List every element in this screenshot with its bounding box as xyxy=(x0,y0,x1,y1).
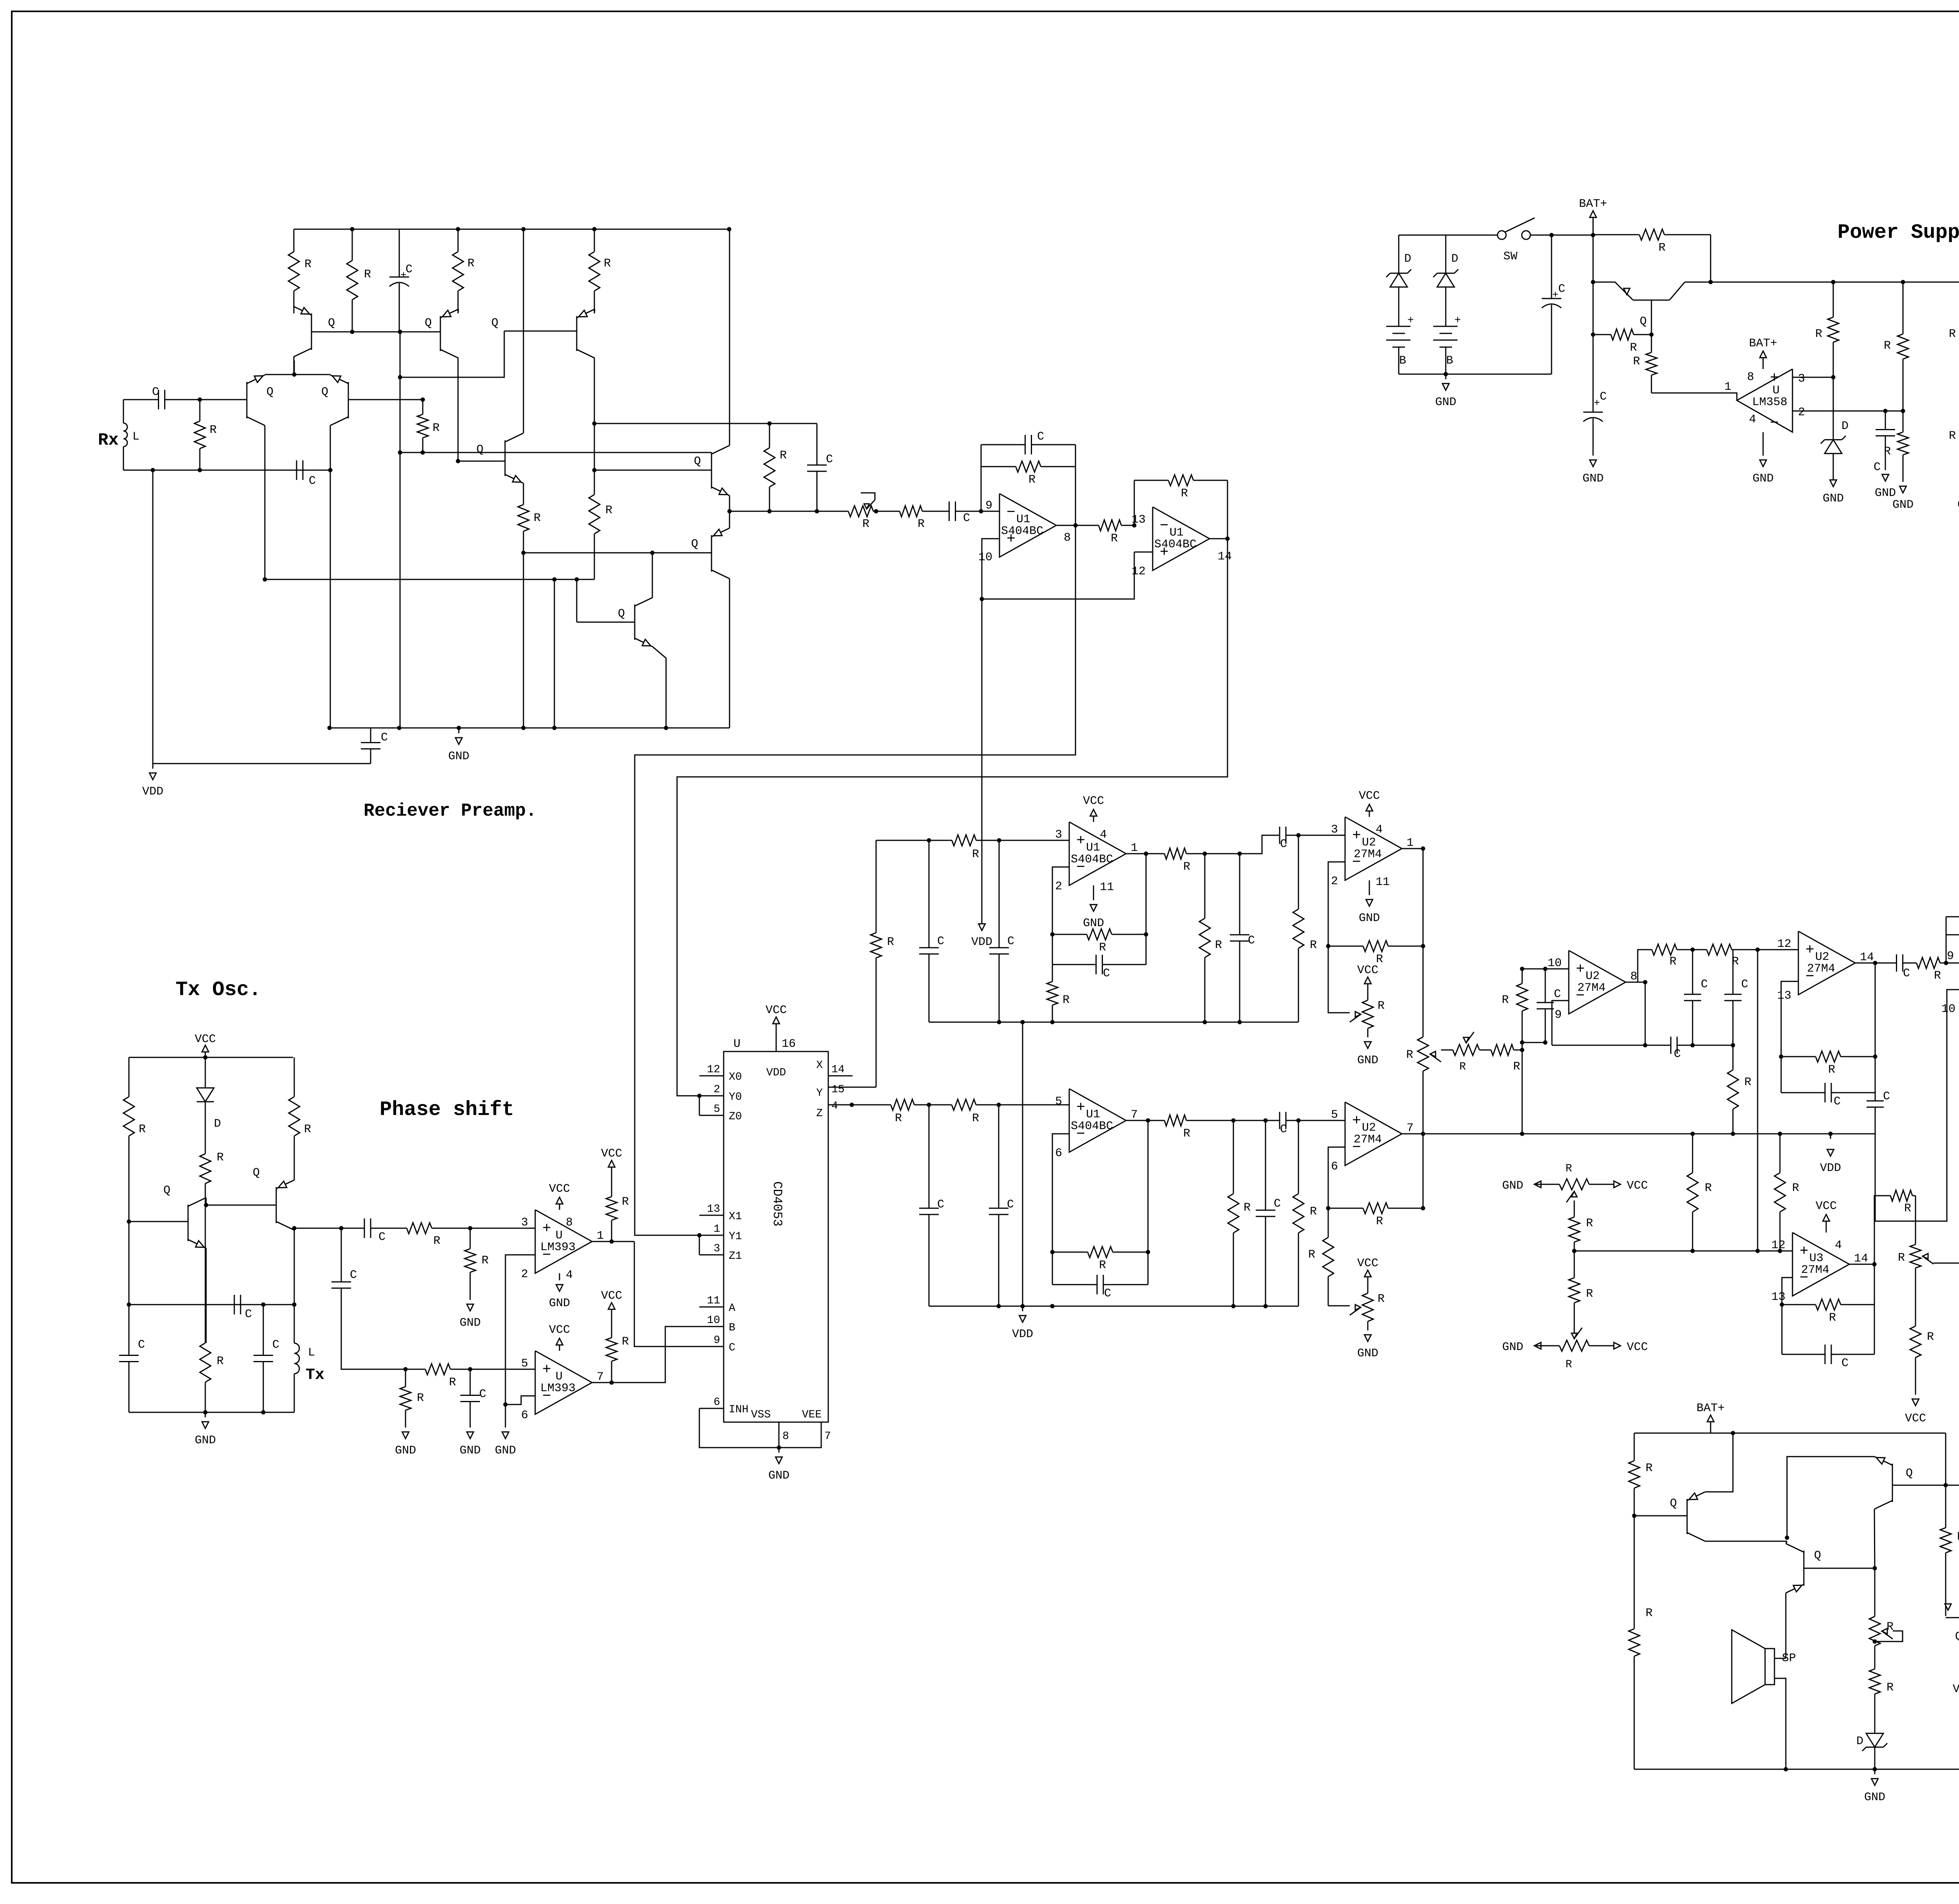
svg-text:GND: GND xyxy=(460,1444,481,1457)
svg-text:9: 9 xyxy=(985,499,992,512)
svg-text:2: 2 xyxy=(1798,406,1805,419)
svg-text:6: 6 xyxy=(1331,1160,1338,1173)
svg-text:C: C xyxy=(1037,430,1044,443)
resistor R fb xyxy=(1328,946,1363,947)
svg-text:GND: GND xyxy=(1357,1347,1378,1360)
resistor R xyxy=(1945,1485,1946,1528)
svg-text:Q: Q xyxy=(266,386,273,399)
svg-text:GND: GND xyxy=(460,1316,481,1330)
wire Q8 emitter xyxy=(729,496,730,511)
svg-text:VCC: VCC xyxy=(1357,964,1378,977)
resistor R xyxy=(876,840,877,933)
power BAT+ xyxy=(1763,357,1764,369)
svg-text:U1: U1 xyxy=(1086,841,1100,854)
wire pin10 xyxy=(982,539,999,599)
svg-text:Y0: Y0 xyxy=(729,1091,742,1103)
resistor R xyxy=(1574,1208,1575,1217)
wire mid rail xyxy=(129,1304,294,1305)
junction xyxy=(1021,1020,1025,1024)
capacitor C xyxy=(929,840,930,948)
svg-text:2: 2 xyxy=(1055,880,1062,893)
wire spk bottom xyxy=(1774,1678,1786,1769)
wire U1b fb right xyxy=(1227,480,1228,539)
svg-text:4: 4 xyxy=(1749,413,1756,426)
svg-text:1: 1 xyxy=(597,1229,604,1243)
svg-text:+: + xyxy=(1800,1243,1809,1260)
svg-text:VDD: VDD xyxy=(766,1067,786,1079)
resistor R xyxy=(352,229,353,261)
resistor R xyxy=(769,424,770,448)
ground xyxy=(779,1448,780,1453)
ground xyxy=(1763,432,1764,456)
svg-text:9: 9 xyxy=(1947,950,1954,963)
svg-text:C: C xyxy=(378,1231,386,1244)
capacitor C polarized xyxy=(1593,415,1594,416)
svg-text:C: C xyxy=(1834,1095,1841,1108)
svg-text:R: R xyxy=(1063,994,1070,1007)
potentiometer R xyxy=(1450,1050,1453,1051)
wire Q2 emitter xyxy=(1785,1593,1787,1658)
wire Q9 collector xyxy=(729,579,730,728)
svg-text:4: 4 xyxy=(831,1100,838,1112)
capacitor C fb xyxy=(1052,964,1096,965)
capacitor C xyxy=(1239,854,1240,935)
wire fb right xyxy=(1146,854,1147,934)
svg-text:Q: Q xyxy=(328,317,335,330)
capacitor C xyxy=(1875,1080,1876,1101)
resistor R xyxy=(1634,1516,1635,1629)
resistor R xyxy=(1874,1652,1876,1669)
wire fb left xyxy=(1946,917,1947,963)
junction xyxy=(552,577,557,582)
wire U1d out xyxy=(1126,853,1164,854)
svg-text:Z0: Z0 xyxy=(729,1111,742,1123)
junction xyxy=(697,1233,702,1238)
junction xyxy=(1779,1055,1783,1059)
svg-text:5: 5 xyxy=(1055,1095,1062,1108)
junction xyxy=(204,1203,208,1207)
svg-text:12: 12 xyxy=(1771,1239,1785,1252)
svg-text:13: 13 xyxy=(1777,989,1791,1003)
resistor R fb xyxy=(1782,1304,1816,1305)
op-amp U1 S404BC xyxy=(999,494,1056,557)
junction xyxy=(1144,852,1148,856)
svg-text:D: D xyxy=(1404,252,1411,266)
wire osc top rail xyxy=(129,1057,293,1058)
junction xyxy=(927,1103,931,1107)
wire Q7 base xyxy=(458,461,505,462)
svg-text:R: R xyxy=(1181,487,1188,500)
wire xyxy=(445,1228,535,1229)
wire Z input row xyxy=(853,1104,876,1106)
wire fb row xyxy=(1552,1045,1655,1046)
capacitor C xyxy=(1265,1120,1266,1210)
svg-text:R: R xyxy=(1828,1063,1835,1077)
svg-text:−: − xyxy=(1007,504,1016,521)
wire xyxy=(1736,949,1798,950)
svg-text:10: 10 xyxy=(978,551,992,564)
svg-text:8: 8 xyxy=(782,1430,789,1442)
svg-text:R: R xyxy=(1459,1061,1466,1073)
svg-text:X0: X0 xyxy=(729,1071,742,1083)
svg-text:14: 14 xyxy=(1218,550,1232,563)
wire bias column lower xyxy=(400,452,401,728)
svg-text:C: C xyxy=(381,731,388,744)
ground xyxy=(1874,1769,1876,1774)
junction xyxy=(997,1020,1001,1024)
svg-text:14: 14 xyxy=(831,1064,845,1076)
ground xyxy=(1830,480,1837,487)
resistor R xyxy=(898,511,900,512)
junction xyxy=(457,726,461,730)
junction xyxy=(1901,280,1905,284)
svg-text:+: + xyxy=(1454,315,1461,327)
resistor R xyxy=(1298,1120,1299,1194)
svg-text:C: C xyxy=(479,1388,486,1401)
svg-text:R: R xyxy=(1815,328,1822,341)
junction xyxy=(1831,280,1836,284)
svg-text:VCC: VCC xyxy=(1359,789,1380,803)
svg-text:R: R xyxy=(1215,939,1222,952)
svg-text:C: C xyxy=(406,263,413,276)
wire up to RR row xyxy=(1638,950,1648,982)
resistor R xyxy=(1522,969,1523,984)
svg-text:Tx Osc.: Tx Osc. xyxy=(176,978,261,1001)
power VCC xyxy=(1369,811,1370,817)
junction xyxy=(650,551,655,555)
svg-text:S404BC: S404BC xyxy=(1071,1120,1113,1133)
svg-text:U1: U1 xyxy=(1016,513,1030,526)
wire bias1 wiper xyxy=(1574,1200,1575,1208)
svg-text:U: U xyxy=(733,1037,741,1051)
svg-text:Q: Q xyxy=(691,538,698,551)
ground xyxy=(402,1432,409,1439)
wire pin10 row xyxy=(1522,968,1569,970)
junction xyxy=(1778,1249,1782,1253)
wire gnd stub xyxy=(554,579,555,728)
wire xyxy=(1445,302,1447,326)
capacitor C xyxy=(998,1105,999,1208)
wire pin12 link xyxy=(982,552,1134,599)
svg-text:7: 7 xyxy=(597,1370,604,1384)
capacitor C upper path xyxy=(341,1228,364,1229)
junction xyxy=(664,726,668,730)
resistor R xyxy=(199,400,201,421)
svg-text:C: C xyxy=(1558,282,1565,296)
wire osc left col xyxy=(129,1175,130,1305)
wire row 2910 xyxy=(1423,1133,1875,1135)
wire Q7 collector xyxy=(523,229,524,433)
wire Q10 emitter xyxy=(653,647,666,728)
junction xyxy=(328,468,333,472)
wire U1a out xyxy=(1056,525,1086,526)
wire xyxy=(1875,1057,1876,1093)
wire osc out down xyxy=(341,1228,342,1269)
junction xyxy=(468,1367,473,1372)
junction xyxy=(1731,1043,1735,1048)
svg-text:D: D xyxy=(214,1117,221,1131)
wire GND rail preamp xyxy=(330,728,730,729)
diode D zener xyxy=(1390,273,1407,287)
resistor R xyxy=(1483,1050,1491,1051)
svg-text:GND: GND xyxy=(768,1469,789,1482)
capacitor C polarized xyxy=(1551,235,1552,290)
wire Z rail xyxy=(929,1306,1298,1307)
svg-text:R: R xyxy=(1378,1292,1385,1306)
svg-text:27M4: 27M4 xyxy=(1354,1133,1382,1146)
capacitor C xyxy=(1545,969,1546,1003)
capacitor C in U2b xyxy=(1267,1120,1280,1121)
resistor R fb xyxy=(1052,934,1087,935)
ground xyxy=(559,1273,560,1280)
junction xyxy=(1520,1048,1524,1052)
svg-text:R: R xyxy=(1244,1201,1251,1214)
resistor R xyxy=(129,1057,130,1097)
junction xyxy=(203,1055,208,1060)
svg-text:R: R xyxy=(1705,1182,1712,1195)
svg-text:3: 3 xyxy=(713,1243,720,1255)
svg-text:VCC: VCC xyxy=(1905,1412,1926,1425)
svg-text:R: R xyxy=(1898,1251,1905,1265)
wire Q3 base xyxy=(1892,1485,1959,1486)
wire fb right xyxy=(1075,445,1076,525)
wire out up xyxy=(1874,1196,1887,1264)
svg-text:VCC: VCC xyxy=(601,1289,622,1303)
wire fb pin2 xyxy=(1328,862,1345,946)
svg-text:GND: GND xyxy=(195,1434,216,1447)
svg-text:C: C xyxy=(826,453,833,466)
wire Q1 base xyxy=(129,1221,188,1222)
junction xyxy=(1543,967,1548,971)
svg-text:R: R xyxy=(887,936,894,949)
junction xyxy=(1444,372,1448,376)
wire LM393b out xyxy=(592,1327,699,1383)
wire xyxy=(1445,347,1447,374)
junction xyxy=(1873,1566,1877,1571)
svg-text:S404BC: S404BC xyxy=(1154,538,1197,551)
svg-text:X: X xyxy=(816,1059,823,1071)
junction xyxy=(1901,409,1905,413)
junction xyxy=(697,1094,702,1098)
capacitor C xyxy=(470,1369,471,1395)
svg-text:R: R xyxy=(1646,1462,1653,1475)
svg-text:R: R xyxy=(1183,860,1190,874)
svg-text:R: R xyxy=(1502,994,1509,1007)
resistor R xyxy=(405,1369,406,1387)
resistor R xyxy=(205,1205,206,1343)
wire pin10 loop xyxy=(1875,963,1876,1080)
junction xyxy=(610,1381,614,1385)
resistor R xyxy=(1833,282,1834,317)
wire VCC rail xyxy=(1685,282,1959,283)
wire U1b out xyxy=(1209,538,1228,539)
junction xyxy=(997,1103,1001,1107)
svg-text:1: 1 xyxy=(1131,842,1138,855)
wire RR row feed xyxy=(1757,950,1758,1251)
svg-text:5: 5 xyxy=(713,1103,720,1115)
svg-text:1: 1 xyxy=(1724,380,1731,394)
junction xyxy=(198,468,202,472)
junction xyxy=(1520,967,1524,971)
wire mixer col xyxy=(1423,946,1424,1015)
svg-text:S404BC: S404BC xyxy=(1001,525,1043,538)
svg-text:+: + xyxy=(1352,1113,1361,1129)
svg-text:C: C xyxy=(152,386,159,399)
svg-text:11: 11 xyxy=(707,1295,720,1307)
svg-text:C: C xyxy=(1274,1197,1281,1211)
svg-text:Q: Q xyxy=(1955,1630,1959,1643)
resistor R fb xyxy=(1781,1056,1816,1057)
junction xyxy=(151,468,155,472)
svg-text:C: C xyxy=(1103,967,1110,980)
wire pin2 ref xyxy=(505,1255,535,1404)
wire xyxy=(1187,1120,1267,1121)
svg-text:C: C xyxy=(1841,1357,1849,1370)
junction xyxy=(456,459,460,463)
svg-text:LM393: LM393 xyxy=(540,1382,576,1395)
power VDD xyxy=(979,924,985,930)
wire fb right xyxy=(1148,1120,1149,1252)
wire LM393a out xyxy=(592,1241,634,1242)
wire Q1 emitter xyxy=(206,1248,207,1343)
svg-text:R: R xyxy=(1376,1215,1383,1228)
svg-text:R: R xyxy=(1957,1530,1959,1544)
junction xyxy=(979,509,983,514)
svg-text:14: 14 xyxy=(1854,1252,1868,1265)
svg-text:+: + xyxy=(400,270,407,281)
wire xyxy=(1398,347,1400,374)
resistor R xyxy=(422,400,424,414)
svg-text:R: R xyxy=(604,257,611,270)
svg-text:12: 12 xyxy=(1132,565,1146,578)
resistor R xyxy=(876,1104,891,1106)
power VDD xyxy=(1830,1134,1831,1139)
capacitor C polarized xyxy=(399,229,400,277)
svg-text:Phase shift: Phase shift xyxy=(380,1098,514,1121)
junction xyxy=(1050,1020,1055,1024)
capacitor C fb xyxy=(1781,1092,1825,1093)
svg-text:2: 2 xyxy=(713,1084,720,1096)
junction xyxy=(1296,1119,1301,1123)
svg-text:2: 2 xyxy=(1331,875,1338,888)
resistor R xyxy=(394,1228,407,1229)
inductor L Tx xyxy=(294,1305,295,1343)
svg-text:LM358: LM358 xyxy=(1752,396,1787,409)
capacitor C xyxy=(1889,963,1897,964)
resistor R xyxy=(1164,853,1164,854)
junction xyxy=(728,509,732,514)
capacitor C xyxy=(999,840,1000,948)
svg-text:7: 7 xyxy=(1407,1122,1414,1135)
capacitor C xyxy=(263,1305,264,1356)
wire emitter feed xyxy=(294,360,295,375)
junction xyxy=(1780,1303,1784,1307)
svg-text:R: R xyxy=(1566,1359,1572,1371)
wire wiper loop xyxy=(1892,1639,1894,1640)
junction xyxy=(610,1240,614,1244)
svg-text:U: U xyxy=(556,1229,563,1242)
capacitor C xyxy=(817,424,818,447)
svg-text:27M4: 27M4 xyxy=(1354,848,1382,861)
wire Q9 base xyxy=(523,552,712,554)
svg-text:R: R xyxy=(1658,241,1666,255)
svg-text:9: 9 xyxy=(1555,1008,1562,1022)
svg-text:VDD: VDD xyxy=(971,936,992,949)
wire Q2 base xyxy=(206,1205,276,1206)
wire batt top xyxy=(1399,235,1498,236)
svg-text:VCC: VCC xyxy=(601,1147,622,1160)
wire fb cap row xyxy=(1052,1252,1053,1285)
capacitor C xyxy=(929,1105,930,1208)
junction xyxy=(404,1367,408,1372)
svg-text:LM393: LM393 xyxy=(540,1241,576,1254)
wire fb cap xyxy=(1782,1305,1783,1354)
resistor R xyxy=(1887,1195,1890,1196)
svg-text:C: C xyxy=(272,1338,279,1352)
resistor R xyxy=(594,229,595,252)
junction xyxy=(456,227,460,232)
junction xyxy=(1944,1483,1948,1488)
junction xyxy=(727,227,731,232)
wire amp top rail xyxy=(1634,1433,1946,1434)
svg-text:Q: Q xyxy=(476,443,483,456)
junction xyxy=(1238,852,1242,856)
svg-text:GND: GND xyxy=(1502,1341,1523,1354)
junction xyxy=(468,1226,473,1231)
svg-text:+: + xyxy=(1552,289,1559,301)
svg-text:VCC: VCC xyxy=(1627,1341,1648,1354)
wire line B xyxy=(677,539,1228,1096)
svg-text:INH: INH xyxy=(729,1404,748,1416)
svg-text:16: 16 xyxy=(782,1037,796,1051)
svg-text:R: R xyxy=(972,1112,979,1125)
junction xyxy=(421,398,425,402)
svg-text:GND: GND xyxy=(1582,472,1604,485)
comparator U LM393 xyxy=(535,1351,592,1414)
junction xyxy=(1326,1206,1331,1211)
junction xyxy=(927,838,931,843)
resistor R xyxy=(470,1228,471,1249)
wire U2a out xyxy=(1402,848,1423,849)
svg-text:C: C xyxy=(729,1342,735,1354)
capacitor C xyxy=(1733,950,1734,994)
wire Q10 base riser xyxy=(576,579,578,622)
wire mixer col low xyxy=(1423,1093,1424,1134)
wire xyxy=(1522,1042,1545,1043)
svg-text:2: 2 xyxy=(521,1268,528,1281)
wire bias column xyxy=(400,331,401,452)
svg-text:4: 4 xyxy=(1376,823,1383,836)
svg-text:Y1: Y1 xyxy=(729,1231,742,1243)
svg-text:B: B xyxy=(1446,354,1453,367)
junction xyxy=(768,422,772,426)
wire xyxy=(1915,1286,1916,1305)
wire fb right xyxy=(1875,963,1876,1057)
junction xyxy=(1144,932,1148,937)
svg-text:C: C xyxy=(937,935,944,948)
junction xyxy=(997,838,1001,843)
junction xyxy=(397,726,402,730)
resistor R fb xyxy=(1052,1252,1088,1253)
svg-text:GND: GND xyxy=(1823,492,1844,505)
potentiometer R trim xyxy=(1367,994,1369,1000)
svg-text:X1: X1 xyxy=(729,1211,742,1223)
svg-text:R: R xyxy=(972,848,979,861)
junction xyxy=(1146,1250,1150,1254)
svg-text:R: R xyxy=(433,422,440,435)
wire base down xyxy=(1874,1568,1876,1611)
wire Q1 base xyxy=(1634,1515,1687,1517)
